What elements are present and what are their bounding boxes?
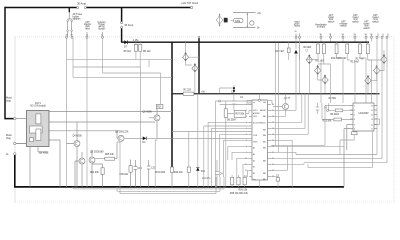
svg-text:R5 1k2: R5 1k2 [124, 51, 132, 53]
svg-text:R20 22k: R20 22k [174, 172, 184, 174]
svg-text:100k: 100k [235, 21, 241, 23]
svg-text:R31 4k7: R31 4k7 [315, 61, 324, 63]
resistor R21 [224, 101, 227, 187]
relay contact 1 [36, 114, 41, 124]
LED LD6 [365, 75, 371, 85]
wire row y77 [73, 76, 172, 78]
svg-text:feed: feed [85, 28, 90, 30]
svg-text:RB5: RB5 [263, 141, 266, 143]
svg-text:C16: C16 [138, 168, 143, 170]
svg-text:R19 t200: R19 t200 [156, 171, 166, 174]
right lower wires [308, 131, 373, 167]
svg-text:RB2: RB2 [263, 173, 266, 175]
capacitor C1 above IC1 [240, 95, 273, 104]
relay coil feed wire [198, 38, 200, 94]
svg-text:RB1: RB1 [263, 179, 266, 181]
transistor Q1 [273, 94, 291, 117]
IC1 microcontroller U1 [249, 100, 271, 180]
label AFT release switch 1 [328, 14, 335, 23]
svg-text:GP4/0: GP4/0 [253, 141, 258, 143]
svg-text:2: 2 [354, 110, 355, 112]
IC2 side wires [271, 106, 380, 187]
svg-text:Q6 2SD1669: Q6 2SD1669 [90, 151, 104, 153]
fuse 15 Amp feed wire [121, 8, 123, 43]
capacitor C4 [215, 160, 223, 187]
svg-text:4: 4 [354, 119, 355, 121]
svg-text:R05 13k: R05 13k [105, 154, 115, 156]
label +15v [133, 40, 140, 42]
terminal +12v TOT circuit [181, 2, 198, 9]
svg-text:Tacho: Tacho [294, 26, 301, 28]
capacitor C2 at bus [231, 91, 236, 110]
transistor internal marks [76, 104, 288, 164]
label R9 [304, 47, 312, 52]
svg-text:Motor: Motor [6, 97, 12, 100]
svg-text:14: 14 [371, 114, 373, 116]
transistor Q3 K28E [39, 152, 85, 187]
resistor R1 220 [183, 90, 194, 96]
capacitor C16 [134, 160, 143, 187]
svg-text:OSC1: OSC1 [253, 116, 257, 118]
right column pins [376, 36, 388, 38]
label AFT release switch 2 [340, 21, 348, 28]
input pins top right row [295, 31, 389, 38]
fuse holder F3 [67, 13, 83, 36]
svg-text:2: 2 [246, 110, 247, 112]
svg-text:on input: on input [317, 26, 326, 29]
label Column Travel wiring Switch [97, 22, 106, 30]
label AFT travel limit switch 3 [352, 14, 359, 23]
LED LD2 [315, 65, 321, 75]
junction node A [220, 85, 235, 93]
svg-text:D8 Z5W: D8 Z5W [227, 120, 236, 122]
resistor R5 1k2 [124, 42, 138, 53]
motor terminal 2 [6, 134, 26, 145]
svg-text:Q4 K056: Q4 K056 [73, 136, 83, 138]
label AFT travel limit switch 4 [363, 21, 370, 30]
svg-text:B1: B1 [253, 167, 255, 169]
capacitor C6 [316, 103, 328, 114]
resistor R08 22k [119, 160, 132, 187]
svg-text:switch: switch [328, 20, 335, 23]
resistor R22 4k7 [275, 42, 290, 60]
LED LD1 [306, 55, 325, 65]
svg-text:D10: D10 [201, 171, 206, 173]
svg-text:12: 12 [245, 170, 247, 172]
svg-text:Vss: Vss [253, 179, 256, 181]
fuse F1 30 Amp [77, 2, 87, 9]
svg-text:3: 3 [354, 114, 355, 116]
transistor Q2 K056 [143, 109, 161, 139]
legend symbol LED [216, 14, 223, 27]
svg-text:+12v TOT circuit: +12v TOT circuit [181, 2, 198, 5]
svg-text:R08 13k R04 13k: R08 13k R04 13k [230, 193, 249, 195]
svg-text:R04 20k: R04 20k [90, 172, 100, 174]
svg-text:B0: B0 [253, 160, 255, 162]
svg-text:R17 4k7: R17 4k7 [356, 59, 365, 61]
legend resistor box [231, 18, 244, 22]
svg-text:R9 0k8: R9 0k8 [304, 47, 312, 49]
svg-text:R2 50k: R2 50k [329, 98, 337, 100]
svg-text:drag: drag [6, 137, 11, 140]
svg-text:RLY: RLY [157, 107, 162, 109]
ground bus [14, 186, 344, 188]
resistor row under bus [317, 42, 370, 64]
transistor Q6 2SD1669 [89, 150, 105, 187]
svg-text:26: 26 [295, 31, 297, 33]
svg-text:3: 3 [246, 116, 247, 118]
diode D4 [143, 137, 253, 144]
svg-text:Vdd: Vdd [263, 102, 266, 104]
AFT fuse holder stub wire [68, 8, 72, 20]
switched +12v bus [121, 41, 369, 43]
transistor Q4 K056 [67, 122, 83, 187]
svg-text:RB6: RB6 [263, 135, 266, 137]
svg-text:osc: osc [253, 102, 256, 104]
svg-text:B2: B2 [253, 173, 255, 175]
svg-text:16: 16 [371, 105, 373, 107]
svg-text:R07 50k: R07 50k [236, 114, 246, 116]
svg-text:drag: drag [6, 100, 11, 103]
resistor R23 50k [322, 103, 353, 123]
resistor R04 20k [90, 164, 104, 187]
diode D10 [196, 94, 211, 187]
IC1 internal pin names [253, 102, 267, 181]
svg-text:30 Amp: 30 Amp [77, 2, 87, 6]
relay RLY1 box [27, 103, 50, 147]
svg-text:R23 50k: R23 50k [323, 121, 333, 123]
wire row y59 [67, 51, 173, 67]
resistor R4 2k62 [327, 103, 353, 116]
resistor block R07 50k [227, 110, 252, 117]
label Handbrake on input [315, 24, 327, 29]
relay wires [16, 112, 172, 187]
svg-text:Q3 K28E: Q3 K28E [39, 152, 49, 154]
svg-text:15 Amp: 15 Amp [124, 23, 134, 27]
svg-text:R08 22k: R08 22k [119, 174, 129, 176]
pin drop wires through bus [296, 38, 372, 93]
label Input from Tacho [294, 21, 301, 28]
left +12v feed wire [5, 7, 14, 119]
legend arrow [246, 13, 248, 28]
right column wires [377, 38, 387, 163]
legend 0v rail [233, 28, 260, 30]
0v wire to ground bus [14, 155, 16, 187]
resistor R19 220 [156, 167, 184, 187]
input wires left column [67, 38, 103, 187]
svg-text:40: 40 [272, 104, 274, 106]
svg-text:R6 1k2: R6 1k2 [143, 51, 151, 53]
svg-text:RB7: RB7 [263, 130, 266, 132]
bottom resistors R08 R09 R04 [230, 175, 249, 195]
svg-text:1 15v: 1 15v [133, 40, 140, 42]
svg-text:R4 2k62: R4 2k62 [330, 114, 339, 116]
sub ground return wires [73, 177, 224, 194]
svg-text:switch: switch [363, 27, 370, 30]
LED LD4 [381, 54, 387, 64]
svg-text:switch: switch [372, 20, 379, 23]
main relay feed wire [171, 42, 173, 167]
legend transistor circle [250, 21, 254, 25]
label AFT travel limit switch 5 [372, 14, 379, 23]
relay contact 2 [30, 126, 42, 142]
svg-text:GP0/1: GP0/1 [253, 110, 258, 112]
+12v top bus wire [5, 7, 191, 9]
left input pins on border [66, 32, 104, 38]
pin relay drive [198, 36, 200, 38]
wires left of IC1 [199, 94, 252, 187]
wires right of IC1 [271, 93, 387, 187]
svg-text:Switch: Switch [98, 27, 106, 30]
LED LD8 left [186, 62, 199, 93]
mid vertical wires [117, 137, 158, 187]
+9v bus [172, 92, 380, 94]
svg-text:switch: switch [352, 20, 359, 23]
zener D8 Z5W [227, 120, 236, 122]
capacitor C3 [260, 176, 280, 187]
svg-text:13: 13 [371, 119, 373, 121]
svg-text:ULN2003: ULN2003 [359, 113, 370, 115]
resistor R05 13k [105, 142, 117, 160]
legend filled square [224, 18, 228, 23]
IC1 pin numbers and labels [245, 104, 274, 178]
resistor R6 1k2 [139, 42, 151, 53]
svg-text:Q5 2SK1276: Q5 2SK1276 [115, 132, 129, 134]
0v terminal [6, 153, 16, 156]
wires above IC2 [300, 42, 372, 104]
wire row y73 [103, 73, 161, 104]
svg-text:RB4: RB4 [263, 148, 266, 150]
svg-text:RB3: RB3 [263, 160, 266, 162]
board dashed border [15, 37, 394, 202]
svg-text:Q2 K056: Q2 K056 [143, 112, 153, 114]
svg-text:15: 15 [371, 110, 373, 112]
LED wires right cascade [368, 50, 384, 93]
LED wires middle cascade [309, 64, 325, 93]
IC2 driver U2 [350, 103, 377, 131]
diode D7 [124, 40, 128, 48]
resistor R16 at bus [172, 132, 252, 187]
motor terminal 1 [6, 97, 16, 120]
legend +9v rail [233, 13, 262, 15]
svg-text:11: 11 [371, 128, 373, 130]
LED LD5 [374, 65, 380, 75]
relay coil RLY box [156, 104, 163, 108]
transistor Q5 2SK1276 [115, 131, 143, 142]
svg-text:adapter: adapter [73, 17, 81, 20]
svg-text:12: 12 [371, 124, 373, 126]
svg-text:Motor: Motor [6, 134, 12, 137]
LED LD7 left [183, 42, 199, 62]
label AFT interior light feed [84, 21, 91, 30]
svg-text:1: 1 [354, 105, 355, 107]
fuse F2 15 Amp [121, 22, 134, 29]
svg-text:R22 4k7: R22 4k7 [275, 51, 284, 53]
svg-text:5: 5 [354, 124, 355, 126]
capacitor C10 [147, 160, 156, 187]
label R10 R20 [329, 58, 365, 100]
svg-text:6: 6 [354, 128, 355, 130]
wire row y67 [73, 51, 141, 137]
wire feeds right mid [275, 43, 278, 153]
svg-text:Q1 ??: Q1 ?? [284, 98, 291, 100]
crystal X1 [352, 131, 358, 140]
LED LD3 [322, 75, 328, 85]
diode D6 [288, 50, 298, 54]
svg-text:R1 220: R1 220 [184, 90, 192, 92]
svg-text:NO (ON board): NO (ON board) [30, 104, 46, 107]
svg-text:R09 13k: R09 13k [239, 190, 249, 192]
svg-text:C-0.47u: C-0.47u [202, 178, 211, 180]
svg-text:switch: switch [340, 25, 347, 28]
